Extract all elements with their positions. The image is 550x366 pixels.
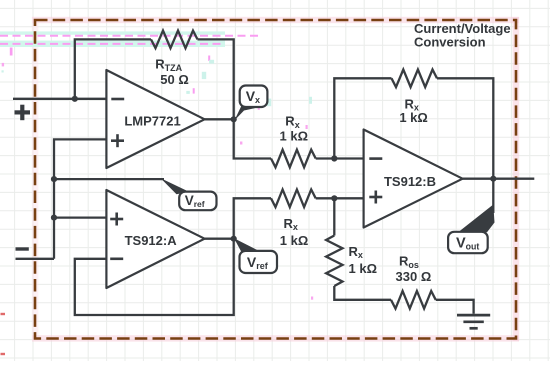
svg-text:TS912:A: TS912:A xyxy=(125,233,178,248)
svg-text:TS912:B: TS912:B xyxy=(384,174,436,189)
svg-text:1 kΩ: 1 kΩ xyxy=(349,261,378,276)
svg-text:Conversion: Conversion xyxy=(414,35,486,50)
svg-text:50 Ω: 50 Ω xyxy=(160,72,189,87)
svg-text:1 kΩ: 1 kΩ xyxy=(280,128,309,143)
svg-text:LMP7721: LMP7721 xyxy=(124,113,180,128)
svg-text:330 Ω: 330 Ω xyxy=(396,269,432,284)
svg-text:1 kΩ: 1 kΩ xyxy=(399,110,428,125)
svg-text:1 kΩ: 1 kΩ xyxy=(280,233,309,248)
